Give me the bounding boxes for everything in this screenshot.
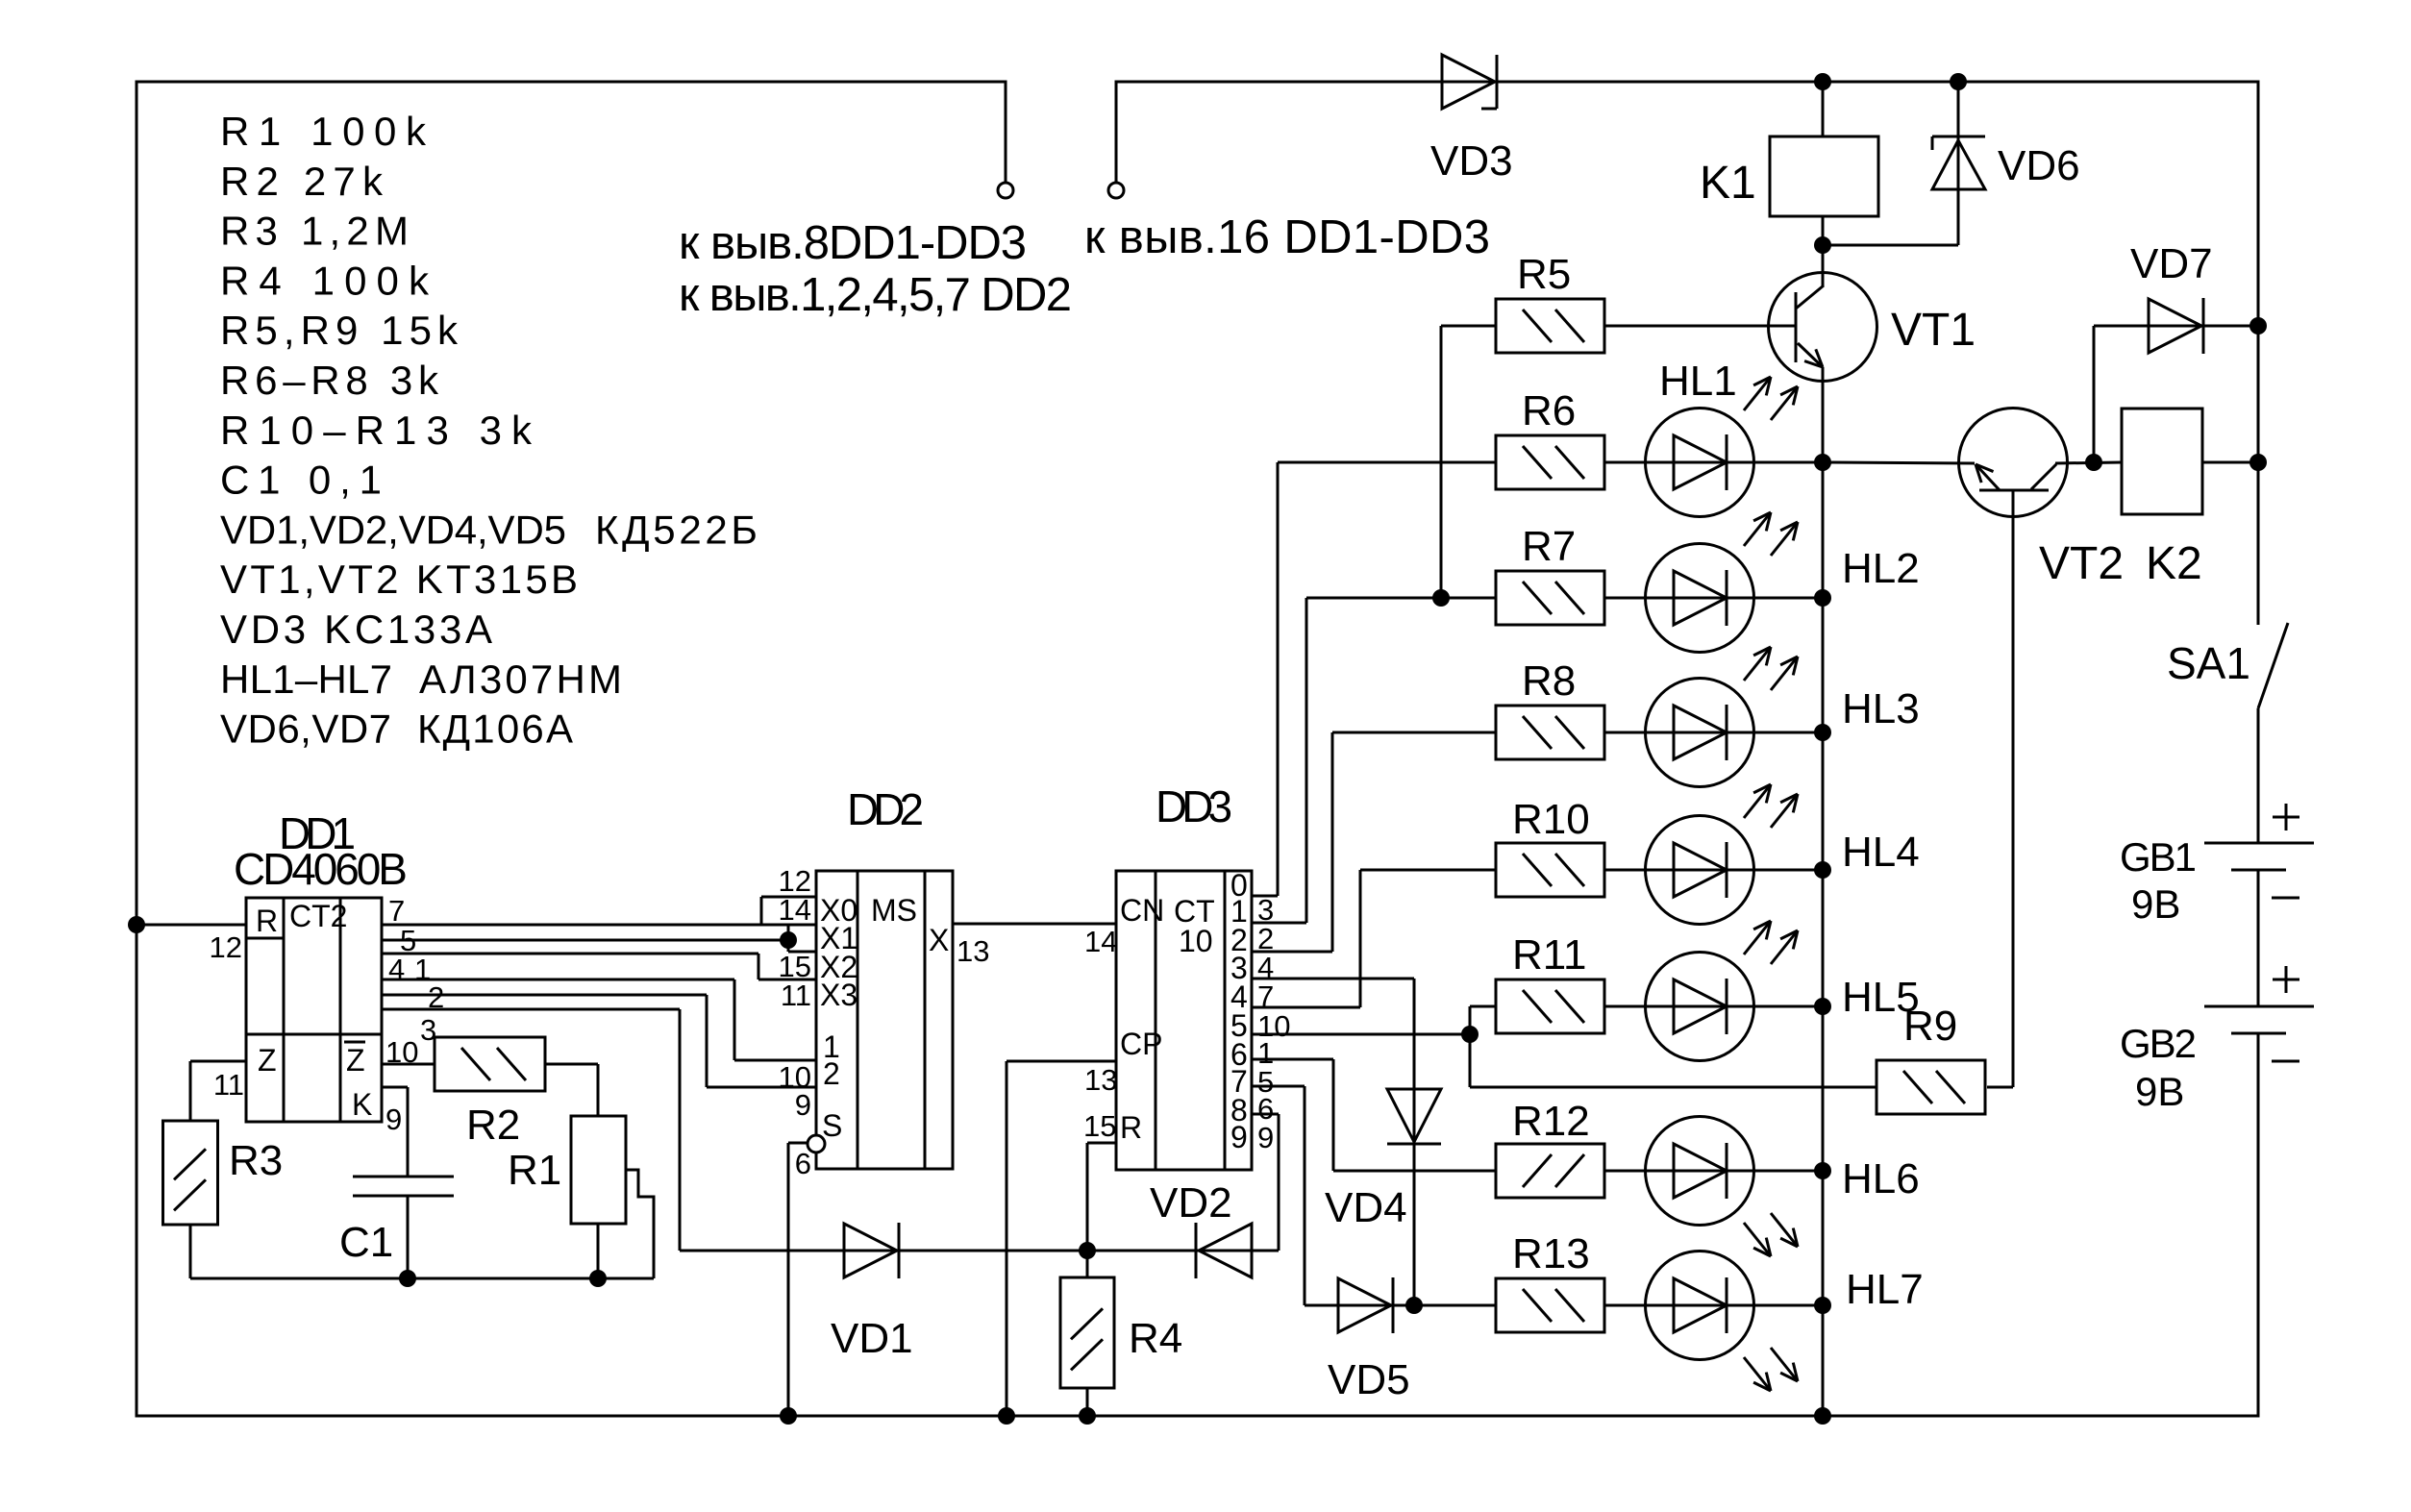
svg-text:КД106А: КД106А <box>417 706 575 752</box>
svg-text:R2: R2 <box>466 1102 520 1149</box>
svg-text:R3: R3 <box>229 1137 283 1184</box>
svg-text:10: 10 <box>1179 924 1213 958</box>
svg-text:6: 6 <box>795 1147 811 1180</box>
svg-text:K1: K1 <box>1700 158 1756 209</box>
svg-text:2: 2 <box>428 980 444 1014</box>
svg-text:к выв.8DD1-DD3: к выв.8DD1-DD3 <box>679 217 1026 269</box>
svg-text:к выв.16 DD1-DD3: к выв.16 DD1-DD3 <box>1084 211 1490 263</box>
svg-text:GB2: GB2 <box>2120 1021 2196 1066</box>
svg-text:C1: C1 <box>339 1219 393 1266</box>
svg-text:R10: R10 <box>1512 796 1590 843</box>
svg-text:R9: R9 <box>1903 1003 1957 1050</box>
svg-text:АЛ307НМ: АЛ307НМ <box>419 657 625 702</box>
svg-text:R1 100k: R1 100k <box>220 109 435 154</box>
svg-text:VD6,VD7: VD6,VD7 <box>220 706 392 752</box>
svg-text:R: R <box>1120 1110 1142 1145</box>
svg-text:R2 27k: R2 27k <box>220 159 389 204</box>
svg-text:9: 9 <box>385 1103 402 1136</box>
svg-text:X: X <box>929 923 949 957</box>
svg-text:Z: Z <box>346 1043 365 1078</box>
svg-text:VT2: VT2 <box>2039 538 2124 589</box>
svg-text:2: 2 <box>823 1056 840 1091</box>
svg-text:R6–R8 3k: R6–R8 3k <box>220 358 444 403</box>
svg-text:R3 1,2M: R3 1,2M <box>220 209 414 254</box>
svg-text:HL7: HL7 <box>1846 1266 1924 1313</box>
svg-text:R4: R4 <box>1129 1315 1182 1362</box>
svg-text:R13: R13 <box>1512 1230 1590 1277</box>
svg-text:VD3 KC133A: VD3 KC133A <box>220 607 496 652</box>
svg-text:CN: CN <box>1120 893 1164 928</box>
svg-text:14: 14 <box>1084 925 1117 958</box>
svg-text:VT1,VT2 KT315B: VT1,VT2 KT315B <box>220 557 581 602</box>
svg-text:VD6: VD6 <box>1998 142 2080 189</box>
svg-text:R5,R9 15k: R5,R9 15k <box>220 308 463 353</box>
svg-text:R5: R5 <box>1517 251 1571 298</box>
svg-text:C1 0,1: C1 0,1 <box>220 458 390 503</box>
svg-text:CT2: CT2 <box>289 899 347 933</box>
svg-text:R8: R8 <box>1522 657 1576 705</box>
svg-text:VD1: VD1 <box>831 1315 913 1362</box>
svg-text:VD2: VD2 <box>1150 1179 1232 1227</box>
svg-text:MS: MS <box>871 893 917 928</box>
svg-text:12: 12 <box>210 930 242 964</box>
svg-text:9: 9 <box>1230 1120 1248 1154</box>
svg-text:HL6: HL6 <box>1842 1155 1920 1202</box>
svg-text:SA1: SA1 <box>2167 638 2250 688</box>
svg-text:Z: Z <box>258 1043 277 1078</box>
svg-text:HL4: HL4 <box>1842 829 1920 876</box>
svg-text:HL2: HL2 <box>1842 545 1920 592</box>
svg-text:13: 13 <box>1084 1063 1117 1097</box>
svg-text:R11: R11 <box>1512 931 1586 979</box>
svg-text:4: 4 <box>388 953 405 986</box>
svg-text:K: K <box>352 1087 372 1122</box>
svg-text:R10–R13 3k: R10–R13 3k <box>220 408 541 453</box>
svg-text:к выв.1,2,4,5,7 DD2: к выв.1,2,4,5,7 DD2 <box>679 269 1070 321</box>
svg-text:11: 11 <box>213 1068 244 1102</box>
svg-text:VD7: VD7 <box>2130 240 2213 287</box>
svg-text:CD4060B: CD4060B <box>234 844 406 894</box>
svg-text:9B: 9B <box>2131 881 2180 927</box>
svg-text:7: 7 <box>1257 979 1274 1013</box>
svg-text:DD3: DD3 <box>1156 781 1230 831</box>
svg-text:15: 15 <box>1083 1109 1116 1143</box>
svg-text:VD1,VD2,VD4,VD5: VD1,VD2,VD4,VD5 <box>220 507 566 552</box>
svg-text:7: 7 <box>388 894 405 928</box>
svg-text:S: S <box>822 1108 842 1143</box>
svg-text:VD3: VD3 <box>1430 137 1513 185</box>
svg-text:CP: CP <box>1120 1027 1162 1061</box>
svg-text:VD4: VD4 <box>1325 1184 1407 1231</box>
svg-text:HL3: HL3 <box>1842 685 1920 732</box>
svg-text:GB1: GB1 <box>2120 834 2196 880</box>
svg-text:R4 100k: R4 100k <box>220 258 438 303</box>
svg-text:VD5: VD5 <box>1328 1356 1410 1403</box>
svg-text:КД522Б: КД522Б <box>595 507 761 552</box>
svg-text:K2: K2 <box>2146 538 2202 589</box>
svg-text:9B: 9B <box>2135 1069 2184 1114</box>
svg-text:R6: R6 <box>1522 387 1576 434</box>
svg-text:X3: X3 <box>820 978 858 1012</box>
svg-text:R: R <box>256 904 278 938</box>
svg-text:9: 9 <box>795 1088 811 1122</box>
svg-text:DD2: DD2 <box>847 784 922 834</box>
svg-text:VT1: VT1 <box>1891 305 1976 356</box>
svg-text:9: 9 <box>1257 1121 1274 1154</box>
svg-text:13: 13 <box>957 934 989 968</box>
svg-text:R12: R12 <box>1512 1098 1590 1145</box>
svg-text:11: 11 <box>781 979 811 1012</box>
svg-text:R1: R1 <box>508 1147 561 1194</box>
svg-text:R7: R7 <box>1522 523 1576 570</box>
svg-text:HL1–HL7: HL1–HL7 <box>220 657 392 702</box>
svg-text:HL1: HL1 <box>1659 358 1737 405</box>
